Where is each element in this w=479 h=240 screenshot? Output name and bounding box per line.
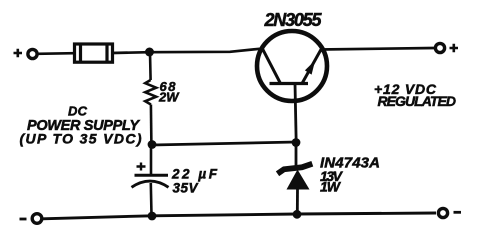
transistor emitter lead (internal)	[302, 50, 321, 84]
emitter arrowhead	[305, 60, 315, 74]
input terminal - (circle)	[32, 214, 42, 224]
junction node at capacitor top	[148, 140, 157, 149]
wire capacitor to bottom rail	[150, 183, 153, 215]
transistor Q1 2N3055 circle	[257, 31, 327, 101]
junction node at capacitor bottom	[148, 212, 157, 221]
zener diode D1 triangle (anode)	[287, 170, 310, 190]
minus sign at output bottom terminal	[454, 211, 462, 214]
wire emitter to output terminal	[320, 48, 434, 50]
plus sign at output terminal	[450, 44, 459, 52]
transistor collector lead (internal)	[263, 49, 281, 84]
junction node at zener top / base	[292, 138, 301, 147]
svg-text:(UP TO 35 VDC): (UP TO 35 VDC)	[20, 131, 142, 147]
bottom rail wire	[42, 213, 436, 219]
zener diode D1 cathode bar	[278, 164, 313, 174]
wire junction to capacitor	[150, 145, 153, 176]
output terminal + (circle)	[435, 43, 444, 52]
minus sign at input bottom terminal	[20, 218, 27, 221]
transistor base bar	[270, 82, 309, 85]
wire junction down to resistor	[149, 52, 152, 80]
output terminal - (circle)	[438, 208, 447, 217]
svg-text:35V: 35V	[173, 181, 199, 196]
capacitor C1 bottom plate (curved)	[132, 181, 169, 187]
input terminal + (circle)	[28, 49, 37, 58]
svg-text:2W: 2W	[158, 90, 180, 105]
svg-text:22 µF: 22 µF	[171, 167, 218, 182]
svg-text:1W: 1W	[320, 179, 342, 195]
wire input terminal to fuse	[38, 52, 74, 55]
wire zener junction down to zener	[295, 142, 298, 167]
capacitor C1 top plate	[135, 174, 169, 177]
wire base junction to capacitor junction	[152, 142, 296, 145]
fuse F1 (cartridge symbol)	[75, 44, 113, 62]
wire transistor base down to zener junction	[295, 84, 296, 144]
svg-text:DC: DC	[68, 104, 88, 119]
plus sign at input terminal	[14, 49, 23, 57]
wire zener to bottom rail	[296, 189, 299, 214]
wire fuse to transistor collector (top rail)	[112, 49, 260, 53]
svg-text:REGULATED: REGULATED	[378, 93, 457, 109]
junction node at zener bottom	[293, 210, 302, 219]
wire resistor to lower junction	[150, 105, 153, 146]
junction node at resistor top	[145, 48, 154, 57]
svg-text:2N3055: 2N3055	[264, 10, 323, 30]
resistor R1 68 ohm 2W (zigzag)	[145, 80, 156, 105]
plus sign at capacitor	[137, 163, 146, 171]
